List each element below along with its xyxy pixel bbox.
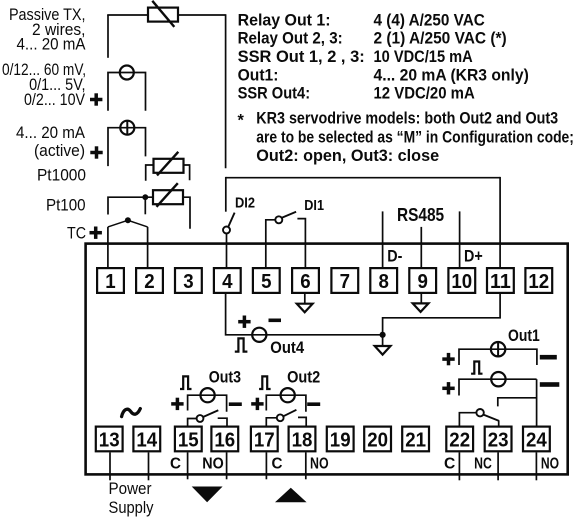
svg-text:6: 6: [300, 271, 311, 294]
wire DI2 drop from horizontal: [225, 177, 227, 212]
svg-text:15: 15: [178, 429, 199, 452]
wire TC to terminal 1: [107, 227, 109, 268]
wire relay lever to terminal 23: [498, 421, 500, 427]
svg-text:TC: TC: [67, 224, 86, 242]
svg-text:RS485: RS485: [397, 205, 444, 226]
svg-text:D+: D+: [464, 247, 483, 265]
SSR circle Out1: [491, 372, 505, 386]
svg-text:16: 16: [214, 429, 235, 452]
svg-text:11: 11: [490, 271, 511, 293]
terminal 23: [485, 427, 512, 452]
svg-text:5: 5: [261, 271, 272, 294]
SSR output circle Out4: [252, 328, 266, 342]
terminal 24: [523, 427, 550, 452]
svg-text:10: 10: [451, 271, 472, 294]
cooling action triangle (down): [192, 487, 223, 503]
svg-text:Out1: Out1: [508, 327, 540, 345]
pulse symbol Out3: [180, 376, 191, 389]
svg-text:9: 9: [417, 271, 428, 294]
minus mark Out2: [307, 402, 320, 406]
wire Out1 right drop to terminal 24: [536, 379, 538, 426]
wire DI1 to terminal 6: [297, 219, 305, 268]
wire below terminal 24: [535, 452, 537, 480]
terminal 2: [136, 268, 163, 293]
wire Pt100 junction stub down: [144, 197, 146, 214]
svg-text:C: C: [272, 455, 283, 472]
wire Out1 current output loop: [459, 349, 537, 365]
svg-text:NC: NC: [474, 454, 492, 472]
terminal 1: [97, 268, 124, 293]
wire below terminal 18: [305, 452, 307, 479]
svg-text:23: 23: [488, 429, 509, 452]
SSR circle Out3: [201, 388, 215, 402]
pulse symbol Out2: [259, 376, 271, 389]
relay pivot circle Out2: [277, 414, 284, 421]
svg-text:19: 19: [330, 429, 351, 452]
pulse symbol Out4: [235, 338, 248, 351]
terminal 4: [214, 268, 241, 293]
wire below terminal 17: [265, 452, 267, 479]
junction dot Pt100: [142, 194, 148, 200]
minus mark Out4: [269, 319, 282, 323]
wire terminal 4 through Out4 to junction: [226, 294, 383, 335]
terminal 18: [289, 427, 316, 452]
svg-text:8: 8: [378, 271, 389, 294]
svg-text:13: 13: [99, 429, 120, 452]
wire passive TX loop top right segment: [178, 14, 226, 16]
current source circle Out1: [491, 342, 505, 356]
svg-text:Power: Power: [109, 481, 152, 499]
terminal 21: [402, 427, 429, 452]
svg-text:Relay Out 2, 3:: Relay Out 2, 3:: [238, 30, 343, 48]
svg-text:DI2: DI2: [235, 194, 255, 211]
polarity plus mark (voltage input): [90, 93, 102, 105]
plus mark Out3: [171, 398, 183, 410]
svg-text:7: 7: [340, 271, 350, 294]
heating action triangle (up): [275, 488, 307, 503]
wire terminal 22 to relay pivot: [459, 413, 476, 426]
svg-text:NO: NO: [202, 455, 223, 473]
terminal 19: [327, 427, 354, 452]
svg-text:20: 20: [367, 429, 388, 452]
svg-text:Relay Out 1:: Relay Out 1:: [238, 11, 331, 29]
svg-text:NO: NO: [541, 454, 559, 472]
wire below terminal 22: [458, 452, 460, 480]
wire Out3 SSR loop: [188, 395, 227, 412]
svg-text:21: 21: [405, 429, 426, 452]
svg-text:Out1:: Out1:: [238, 67, 279, 84]
wire DI2 to terminal 4: [226, 234, 228, 269]
minus mark Out1 current: [540, 355, 557, 360]
wire Out2 SSR loop: [266, 395, 306, 412]
svg-text:12 VDC/20 mA: 12 VDC/20 mA: [374, 85, 475, 103]
wire terminal 17 to Out2 relay pivot: [266, 418, 276, 426]
ground symbol at Out4 junction: [375, 335, 391, 355]
wire TC to terminal 2: [147, 227, 149, 268]
svg-text:(active): (active): [34, 143, 85, 160]
relay lever Out2: [284, 410, 297, 416]
wire Out1 relay NO branch: [498, 398, 537, 407]
relay pivot circle Out3: [197, 415, 204, 422]
wire below terminal 15: [187, 452, 189, 479]
svg-text:NO: NO: [310, 454, 329, 472]
wire RS485 D+ to terminal 10: [459, 211, 461, 268]
svg-text:KR3 servodrive models: both Ou: KR3 servodrive models: both Out2 and Out…: [256, 110, 558, 128]
switch DI2 lever: [228, 213, 234, 227]
terminal 6: [292, 268, 319, 293]
transmitter symbol (box with slash): [148, 1, 178, 27]
svg-text:C: C: [444, 456, 455, 473]
terminal 14: [133, 427, 160, 452]
svg-text:4... 20 mA: 4... 20 mA: [17, 36, 86, 54]
terminal 16: [211, 427, 238, 452]
wire RS485 common to terminal 9: [420, 227, 422, 268]
svg-text:12: 12: [528, 271, 549, 294]
terminal 17: [251, 427, 278, 452]
relay lever Out1: [484, 415, 499, 421]
polarity plus mark (active mA input): [90, 146, 102, 158]
wire Pt100 right stub: [183, 197, 190, 229]
label Power Supply: [109, 481, 154, 518]
resistor Pt1000 RTD symbol: [154, 152, 184, 176]
junction dot Out4 minus node: [380, 332, 386, 338]
svg-text:2: 2: [144, 271, 154, 294]
terminal 10: [448, 268, 475, 293]
svg-text:0/2... 10V: 0/2... 10V: [24, 91, 86, 109]
plus mark Out4: [238, 316, 250, 328]
terminal 9: [409, 268, 436, 293]
minus mark Out3: [229, 402, 242, 406]
svg-text:C: C: [170, 455, 181, 472]
wire TC V arms: [108, 220, 148, 227]
switch DI1 lever: [282, 212, 296, 218]
svg-text:1: 1: [105, 271, 116, 294]
svg-text:Out2: open, Out3: close: Out2: open, Out3: close: [256, 147, 439, 165]
wire terminal 11 drop from horizontal: [499, 177, 501, 268]
svg-text:Out3: Out3: [209, 369, 241, 387]
terminal 22: [446, 427, 473, 452]
terminal 13: [96, 427, 123, 452]
wire power supply terminal 14: [148, 453, 150, 481]
terminal 20: [364, 427, 391, 452]
wire passive TX loop left vertical: [107, 15, 109, 58]
svg-text:24: 24: [526, 429, 547, 452]
svg-text:4... 20 mA (KR3 only): 4... 20 mA (KR3 only): [374, 67, 529, 84]
wire active mA input loop: [108, 128, 146, 166]
svg-text:*: *: [238, 112, 245, 130]
label output ratings table: [238, 11, 574, 165]
svg-text:DI1: DI1: [304, 196, 324, 213]
svg-text:SSR Out 1, 2 , 3:: SSR Out 1, 2 , 3:: [238, 48, 365, 66]
svg-text:3: 3: [183, 271, 194, 294]
wire power supply terminal 13: [109, 453, 111, 481]
svg-text:Supply: Supply: [109, 499, 154, 517]
resistor Pt100 RTD symbol: [153, 183, 183, 207]
wire Pt1000 left stub: [146, 165, 154, 181]
svg-text:17: 17: [254, 429, 275, 452]
wire Pt100 left branch: [108, 197, 153, 214]
svg-text:10 VDC/15 mA: 10 VDC/15 mA: [374, 48, 473, 66]
wire below terminal 16: [226, 452, 228, 479]
terminal 5: [253, 268, 280, 293]
wire Out3 NO contact to terminal 16: [218, 418, 227, 426]
svg-text:Out4: Out4: [270, 340, 304, 358]
switch DI2 contact circle: [223, 227, 230, 234]
wire Out2 NO contact to terminal 18: [298, 417, 306, 426]
terminal 7: [331, 268, 358, 293]
terminal 12: [525, 268, 552, 293]
current source circle (vertical bar): [120, 121, 134, 135]
wire passive TX loop right vertical stub: [225, 14, 227, 168]
switch DI1 contact circle: [275, 216, 282, 223]
svg-text:4... 20 mA: 4... 20 mA: [16, 124, 85, 142]
wire RS485 D- to terminal 8: [382, 211, 384, 268]
wire terminal 5 up to DI1: [266, 220, 275, 268]
plus mark Out1 SSR: [442, 382, 454, 394]
wire Out1 SSR loop: [459, 379, 537, 395]
wire passive TX loop top left segment: [107, 14, 148, 16]
wire mV/V input loop: [108, 73, 146, 111]
ground symbol below terminal 6: [297, 294, 313, 312]
svg-text:4 (4) A/250 VAC: 4 (4) A/250 VAC: [374, 12, 485, 30]
label 0/12...60mV 0/1...5V 0/2...10V: [2, 61, 86, 109]
svg-text:22: 22: [449, 429, 470, 452]
wire terminal 15 to Out3 relay pivot: [188, 419, 197, 427]
junction dot TC: [125, 217, 131, 223]
wire terminal 11 bottom to Out4 junction: [383, 294, 501, 335]
label Passive TX 2 wires 4...20 mA: [9, 6, 86, 54]
svg-text:SSR Out4:: SSR Out4:: [238, 85, 310, 103]
terminal 15: [175, 427, 202, 452]
voltage source circle: [120, 66, 134, 80]
svg-text:Out2: Out2: [287, 369, 320, 387]
SSR circle Out2: [281, 388, 295, 402]
relay lever Out3: [203, 410, 218, 417]
svg-text:are to be selected as “M” in C: are to be selected as “M” in Configurati…: [256, 128, 574, 146]
minus mark Out1 SSR: [540, 382, 560, 387]
svg-text:Pt100: Pt100: [46, 197, 86, 215]
plus mark Out1 current: [442, 353, 454, 365]
device body outline: [86, 244, 568, 475]
relay pivot circle Out1: [476, 409, 483, 416]
pulse symbol Out1: [471, 362, 482, 374]
svg-text:14: 14: [136, 429, 157, 452]
wire DI2-to-terminal11 top horizontal: [226, 177, 500, 179]
svg-text:Pt1000: Pt1000: [37, 167, 86, 184]
wire Pt1000 right stub: [184, 165, 190, 180]
label 4...20 mA (active): [16, 124, 85, 160]
polarity plus mark (TC input): [90, 227, 102, 239]
AC supply tilde symbol: [122, 409, 141, 417]
svg-text:2 (1) A/250 VAC (*): 2 (1) A/250 VAC (*): [374, 30, 507, 47]
svg-text:18: 18: [292, 429, 313, 452]
wire below terminal 23: [497, 452, 499, 480]
terminal 3: [175, 268, 202, 293]
svg-text:D-: D-: [387, 247, 402, 265]
plus mark Out2: [251, 398, 263, 410]
ground symbol below terminal 9: [413, 294, 429, 312]
terminal 8: [370, 268, 397, 293]
terminal 11: [487, 268, 514, 293]
svg-text:4: 4: [222, 271, 233, 294]
